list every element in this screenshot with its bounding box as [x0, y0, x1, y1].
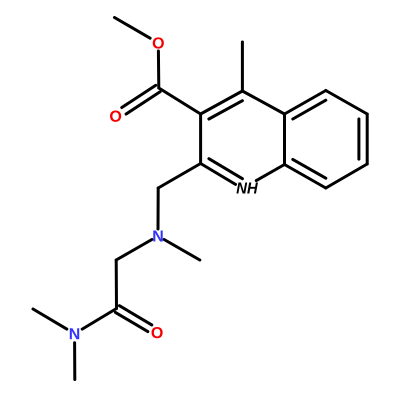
bond CH2b-C10 — [115, 260, 118, 309]
double bond C8=C8a inner line — [293, 159, 326, 178]
bond C4-C4a — [242, 91, 284, 114]
bond C9-C3 — [159, 88, 201, 114]
bond C2-N1 — [201, 164, 236, 185]
double bond C4a=C5 inner line — [293, 100, 326, 119]
double bond C9=O2 carbonyl line a — [122, 85, 156, 107]
bond C4a-C5 — [285, 91, 326, 115]
bond N2-CH2b — [116, 240, 152, 261]
bond C10-N3 — [82, 309, 116, 330]
bond C8-C8a — [285, 165, 326, 189]
bond N3-CH3 upper methyl — [33, 309, 67, 329]
double bond C10=O3 amide carbonyl line a — [115, 312, 147, 331]
double bond C2=N1 inner line — [209, 159, 243, 179]
bond N2-CH3 N-methyl — [164, 240, 200, 261]
bond N3-CH3 lower methyl — [73, 343, 76, 380]
double bond C3=C4 inner line — [209, 101, 243, 119]
bond N1-C8a — [256, 165, 284, 181]
bond CH3-O ester methyl — [115, 18, 151, 39]
double bond C9=O2 carbonyl line b — [126, 92, 160, 114]
atom N1 ring NH label — [236, 182, 247, 193]
atom N3 amide nitrogen label — [70, 328, 79, 339]
bond CH2a-N2 — [157, 188, 160, 229]
atom N2 amine nitrogen label — [153, 230, 162, 241]
bond C6-C7 — [366, 114, 369, 164]
double bond C6=C7 inner line — [357, 119, 360, 159]
bond C7-C8 — [326, 164, 367, 188]
bond C2-C3 — [199, 114, 202, 164]
atom O3 amide oxygen label — [152, 327, 163, 338]
bond C2-CH2a — [158, 164, 200, 189]
double bond C10=O3 amide carbonyl line b — [119, 306, 151, 325]
bond C5-C6 — [326, 91, 367, 115]
atom O2 carbonyl oxygen label — [110, 111, 121, 122]
bond O-C9 ester — [157, 51, 160, 88]
bond C4-CH3 methyl — [241, 42, 244, 91]
atom O1 ester oxygen label — [153, 37, 164, 48]
bond C3-C4 ring — [201, 91, 243, 114]
bond C4a-C8a ring fusion — [283, 114, 286, 165]
